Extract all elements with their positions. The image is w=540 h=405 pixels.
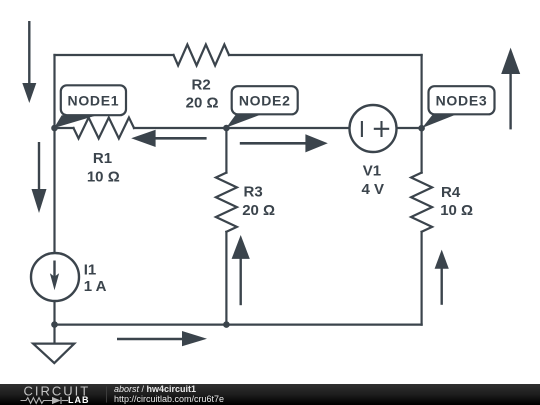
svg-text:aborst / hw4circuit1: aborst / hw4circuit1: [114, 384, 196, 394]
wire top right segment: [229, 54, 422, 56]
voltage source V1: [350, 105, 397, 152]
svg-text:I1: I1: [84, 261, 97, 278]
svg-text:10 Ω: 10 Ω: [440, 202, 473, 219]
node E junction dot bottom-middle: [223, 321, 230, 328]
node A junction dot NODE1: [51, 125, 58, 132]
svg-text:20 Ω: 20 Ω: [186, 94, 219, 111]
node D junction dot bottom-left: [51, 321, 58, 328]
svg-text:V1: V1: [363, 162, 381, 179]
node NODE1 label: [54, 85, 126, 128]
arrow current annotation pointing right (NODE2 to V1): [240, 134, 328, 152]
svg-text:NODE1: NODE1: [68, 92, 120, 108]
arrow current annotation top-left down: [22, 21, 36, 103]
wire bottom horizontal: [55, 324, 422, 326]
wire V1 to NODE3: [397, 127, 422, 129]
svg-text:10 Ω: 10 Ω: [87, 169, 120, 186]
arrow current annotation up (R4 branch): [435, 250, 449, 305]
arrow current annotation pointing right (bottom wire): [117, 331, 207, 346]
arrow current annotation pointing left (R1 branch): [131, 130, 206, 147]
label R1 value: [87, 150, 120, 186]
node C junction dot NODE3: [418, 125, 425, 132]
arrow current annotation left-mid down: [32, 142, 47, 213]
current source I1: [31, 253, 79, 301]
svg-text:LAB: LAB: [68, 395, 90, 405]
svg-text:http://circuitlab.com/cru6t7e: http://circuitlab.com/cru6t7e: [114, 394, 224, 404]
svg-text:R3: R3: [244, 184, 263, 201]
resistor R1 zigzag: [74, 118, 135, 139]
ground: [33, 344, 74, 364]
wire left vertical top (NODE1 to top-left corner): [53, 55, 55, 128]
resistor R3 zigzag: [216, 173, 237, 232]
label I1 value: [84, 261, 107, 295]
svg-text:R1: R1: [93, 150, 112, 167]
label V1 value: [361, 162, 384, 198]
wire R1 to NODE2 to V1: [134, 127, 350, 129]
wire R3 to bottom: [225, 232, 227, 325]
footer separator: [106, 387, 108, 403]
wire top left segment: [55, 54, 174, 56]
svg-text:20 Ω: 20 Ω: [242, 202, 275, 219]
wire R4 to bottom: [421, 232, 423, 325]
label R2 value: [186, 76, 219, 111]
wire NODE2 down to R3: [225, 128, 227, 173]
label R4 value: [440, 184, 473, 219]
node B junction dot NODE2: [223, 125, 230, 132]
wire NODE1 to R1: [55, 127, 74, 129]
svg-text:1 A: 1 A: [84, 278, 107, 295]
arrow current annotation up (R3 branch): [232, 235, 250, 305]
resistor R4 zigzag: [411, 173, 432, 232]
CircuitLab logo resistor-diode glyph: [21, 397, 62, 404]
arrow current annotation up (top-right): [501, 48, 520, 130]
svg-text:NODE3: NODE3: [436, 92, 488, 108]
svg-text:R2: R2: [192, 76, 211, 93]
svg-text:4 V: 4 V: [361, 181, 384, 198]
wire I1 to bottom node: [53, 301, 55, 344]
node NODE3 label: [422, 86, 495, 128]
node NODE2 label: [226, 86, 297, 127]
svg-text:R4: R4: [441, 184, 461, 201]
wire NODE3 down to R4: [421, 128, 423, 173]
resistor R2 zigzag: [174, 45, 230, 66]
wire NODE1 down to I1: [53, 128, 55, 253]
label R3 value: [242, 184, 275, 219]
wire right vertical (top corner to NODE3): [421, 55, 423, 128]
svg-text:NODE2: NODE2: [239, 92, 291, 108]
